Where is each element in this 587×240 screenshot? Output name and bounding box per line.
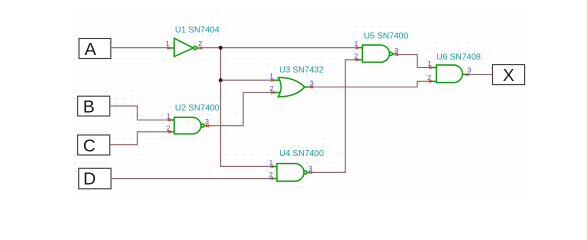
wire B to U2 pin 1: [110, 106, 170, 120]
U6 pin 3: [467, 68, 472, 76]
nand gate U5: [357, 45, 397, 62]
wire U6 pin 3 to X: [468, 74, 493, 76]
svg-text:U4 SN7400: U4 SN7400: [279, 148, 324, 158]
input box C: [78, 135, 110, 155]
U5 pin 1: [354, 41, 358, 49]
svg-text:U2 SN7400: U2 SN7400: [175, 103, 220, 113]
svg-text:U5 SN7400: U5 SN7400: [364, 30, 409, 40]
U4 pin 2: [269, 172, 273, 180]
input box A: [79, 39, 111, 59]
input box B: [78, 96, 110, 116]
svg-text:U3 SN7432: U3 SN7432: [279, 65, 324, 75]
wire U4 pin 3 to U5 pin 2: [311, 60, 357, 173]
svg-text:X: X: [503, 65, 515, 85]
U3 pin 3: [310, 81, 314, 89]
nand gate U4: [272, 164, 311, 182]
wire U1 output down to U4 pin 1: [221, 48, 272, 167]
U1 pin 2: [198, 41, 202, 49]
U4 pin 3: [308, 166, 312, 174]
U5 pin 3: [394, 48, 398, 56]
U6 pin 1: [427, 61, 431, 69]
U2 pin 2: [167, 125, 171, 133]
junction dot at U1 output node: [219, 46, 223, 50]
svg-text:3: 3: [467, 68, 471, 75]
wire node branch to U3 pin 1: [221, 79, 273, 81]
wire C to U2 pin 2: [110, 132, 170, 145]
U1 pin 1: [166, 41, 170, 49]
U3 pin 2: [270, 86, 274, 94]
svg-text:C: C: [83, 135, 96, 155]
inverter U1: [168, 38, 201, 56]
output box X: [493, 65, 525, 86]
svg-text:U1 SN7404: U1 SN7404: [175, 25, 220, 35]
U2 pin 3: [205, 119, 209, 127]
nand gate U2: [169, 117, 207, 134]
wire U3 pin 3 to U6 pin 2: [312, 81, 430, 87]
wire U1 pin 2 to U5 pin 1: [201, 47, 357, 49]
or gate U3: [272, 77, 312, 96]
junction dot at U3 branch node: [219, 78, 223, 82]
U4 pin 1: [269, 160, 273, 168]
svg-text:B: B: [83, 96, 95, 116]
svg-text:A: A: [85, 39, 97, 59]
U5 pin 2: [354, 53, 358, 61]
U3 pin 1: [270, 74, 274, 82]
input box D: [79, 168, 111, 189]
U2 pin 1: [167, 114, 171, 122]
wire U2 pin 3 to U3 pin 2: [205, 93, 273, 126]
wire D to U4 pin 2: [111, 178, 272, 180]
svg-text:U6 SN7408: U6 SN7408: [436, 52, 481, 62]
U6 pin 2: [427, 75, 431, 83]
svg-text:D: D: [83, 169, 96, 189]
wire A to U1 pin 1: [111, 47, 169, 49]
wire U5 pin 3 to U6 pin 1: [397, 55, 430, 68]
and gate U6: [430, 65, 468, 83]
